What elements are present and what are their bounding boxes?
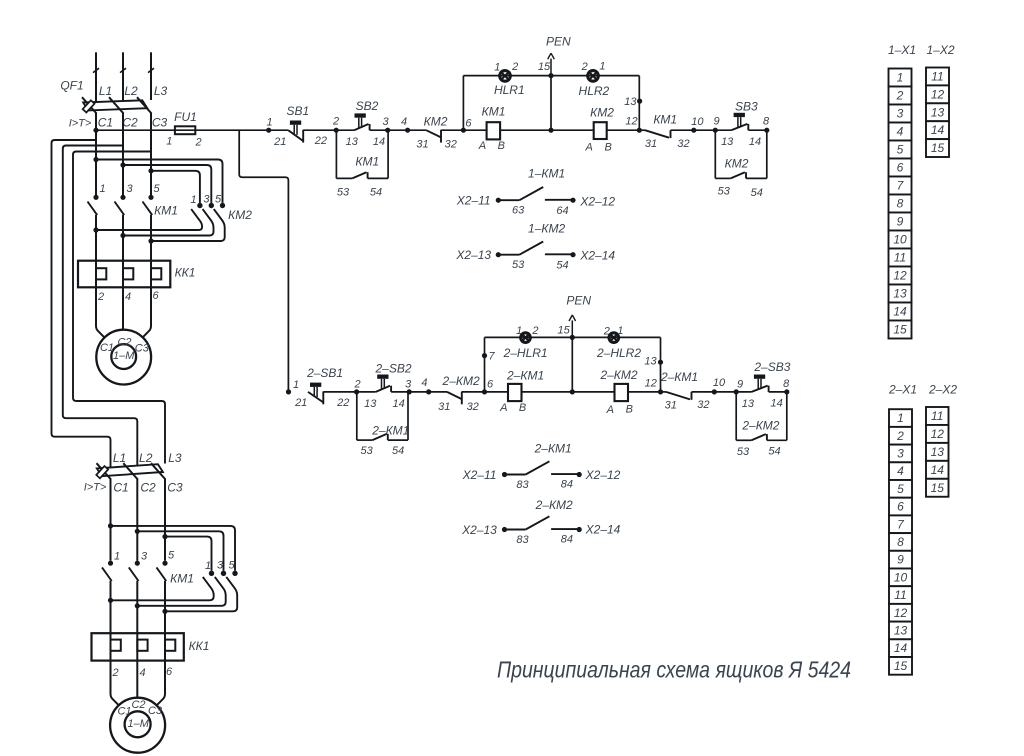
svg-text:Х2–14: Х2–14	[579, 249, 615, 263]
label coil 2KM2 B	[626, 404, 633, 416]
wire SB3 to node 8	[748, 129, 767, 131]
svg-text:14: 14	[373, 136, 385, 148]
label motor C1	[100, 342, 114, 354]
svg-text:84: 84	[561, 478, 573, 490]
svg-text:КМ1: КМ1	[170, 571, 194, 585]
label C3	[152, 116, 168, 130]
svg-text:I>T>: I>T>	[69, 117, 92, 129]
svg-text:1: 1	[293, 379, 299, 391]
label wire 13 (row1)	[624, 96, 637, 108]
contactor 2-KM1 pole 1	[102, 561, 113, 581]
svg-text:31: 31	[438, 401, 450, 413]
svg-text:С1: С1	[100, 342, 114, 354]
label FU1	[174, 110, 197, 124]
circuit breaker QF1 linkage bar	[83, 100, 147, 110]
label pin 63	[512, 204, 525, 216]
node 8 (row2)	[783, 378, 790, 395]
signal lamp 2-HLR1	[503, 333, 548, 360]
label KM2 pin 53	[718, 186, 731, 198]
contactor coil 2-KM2	[599, 368, 637, 401]
svg-text:КМ1: КМ1	[355, 155, 379, 169]
svg-text:2–SB2: 2–SB2	[374, 362, 411, 376]
svg-text:4: 4	[897, 125, 904, 139]
motor 1-M	[96, 330, 151, 385]
svg-text:SB1: SB1	[286, 104, 309, 118]
label 2-KM2 pin 53	[737, 446, 750, 458]
circuit breaker 2 trip unit box	[96, 466, 108, 478]
node 3 (row1)	[382, 116, 390, 133]
wire KK1 to motor lead C3	[143, 287, 151, 337]
svg-text:11: 11	[894, 251, 906, 265]
wire feed tap phase3 to left bus	[73, 152, 165, 464]
svg-text:L3: L3	[168, 451, 182, 465]
svg-text:9: 9	[897, 553, 904, 567]
svg-text:12: 12	[931, 427, 945, 441]
svg-text:2–КМ1: 2–КМ1	[506, 368, 544, 382]
svg-text:12: 12	[931, 87, 945, 101]
svg-text:КМ1: КМ1	[482, 105, 506, 119]
svg-text:32: 32	[445, 139, 457, 151]
svg-text:8: 8	[897, 197, 904, 211]
svg-text:Х2–14: Х2–14	[585, 523, 621, 537]
svg-text:3: 3	[126, 183, 133, 195]
label 2-KM2 pin 54	[768, 446, 780, 458]
wire KK1 to motor lead C1	[96, 287, 104, 337]
label C2 (circuit 2)	[140, 480, 156, 494]
svg-text:13: 13	[931, 445, 945, 459]
svg-text:1: 1	[266, 117, 272, 129]
svg-text:4: 4	[401, 116, 407, 128]
label HLR1 pin 1	[494, 62, 500, 74]
svg-text:С2: С2	[140, 480, 156, 494]
contactor KM1 pole 3	[115, 195, 126, 215]
wire 2KM2 contact to coil	[462, 391, 508, 393]
svg-text:8: 8	[763, 116, 770, 128]
wire 2KM1 contact to 2SB3	[692, 391, 752, 393]
svg-text:2–КМ1: 2–КМ1	[534, 442, 572, 456]
label L1 (circuit 2)	[113, 451, 126, 465]
svg-text:53: 53	[737, 446, 750, 458]
label KK1 pin 4	[125, 291, 131, 303]
node 10 (row2)	[712, 377, 726, 394]
label HLR2 pin 2	[581, 61, 588, 73]
fuse FU1	[175, 126, 195, 134]
svg-text:2–Х1: 2–Х1	[888, 383, 917, 397]
svg-text:1: 1	[599, 61, 605, 73]
contactor KM2 pole 5	[151, 203, 225, 241]
wire phase2 tap to 2KM2 pin3	[137, 531, 223, 570]
label KM2 pin 31	[416, 139, 428, 151]
terminal block 1-X1	[889, 69, 912, 339]
svg-text:5: 5	[168, 550, 175, 562]
wire PEN drop row2	[571, 337, 573, 392]
svg-text:3: 3	[382, 116, 389, 128]
svg-text:2: 2	[97, 291, 104, 303]
svg-text:14: 14	[893, 305, 907, 319]
label coil 2KM1 B	[519, 402, 526, 414]
svg-text:5: 5	[897, 143, 904, 157]
label 2-SB1 pin 21	[294, 397, 307, 409]
svg-text:1: 1	[166, 136, 172, 148]
label 2-SB2 pin 13	[364, 398, 377, 410]
auxiliary contact 2-KM1 31-32	[660, 370, 698, 400]
label 2-X1 header	[888, 383, 917, 397]
svg-text:14: 14	[749, 136, 761, 148]
svg-text:HLR1: HLR1	[494, 83, 525, 97]
svg-text:1: 1	[99, 183, 105, 195]
label wire 13 (row2)	[644, 356, 657, 368]
label SB3 pin 14	[749, 136, 761, 148]
svg-text:5: 5	[228, 560, 235, 572]
svg-text:13: 13	[721, 136, 734, 148]
signal lamp 2-HLR2	[596, 333, 641, 360]
wire SB2 to KM2 contact	[370, 129, 427, 131]
svg-text:1: 1	[897, 71, 904, 85]
label 1-M	[113, 350, 135, 362]
wire lamp line right drop	[637, 76, 642, 131]
label right pole pin 5 (ckt2)	[228, 560, 235, 572]
label 1-M (circuit 2)	[127, 718, 149, 730]
label coil KM2 A	[585, 141, 593, 153]
signal lamp HLR2	[579, 71, 610, 98]
wire KM2 contact to coil KM1	[441, 129, 487, 131]
pushbutton 2-SB2	[374, 362, 411, 392]
label pin 83 (row D)	[516, 534, 529, 546]
svg-text:Х2–13: Х2–13	[455, 248, 491, 262]
svg-text:6: 6	[465, 118, 472, 130]
label X2-12 (row A)	[579, 194, 615, 208]
svg-text:PEN: PEN	[546, 34, 571, 48]
svg-text:15: 15	[893, 323, 907, 337]
svg-text:В: В	[519, 402, 526, 414]
label KK1	[175, 265, 196, 279]
svg-text:32: 32	[677, 138, 689, 150]
svg-text:2: 2	[581, 61, 588, 73]
contactor 2 right pole 1	[111, 571, 215, 601]
wire node3 branch down (row2)	[407, 392, 409, 440]
label 2-KM1 pin 31	[665, 399, 677, 411]
svg-text:2–HLR1: 2–HLR1	[503, 346, 548, 360]
label coil KM1 A	[478, 140, 486, 152]
svg-text:15: 15	[931, 141, 945, 155]
node 10 (row1)	[691, 116, 704, 133]
label motor2 C3	[148, 705, 163, 717]
thermal relay 2 heater 1	[111, 640, 121, 651]
svg-text:11: 11	[931, 70, 943, 84]
label pin 54 (row B)	[556, 260, 568, 272]
svg-text:В: В	[626, 404, 633, 416]
svg-text:КМ1: КМ1	[154, 203, 178, 217]
label X2-14 (row B)	[579, 249, 615, 263]
circuit breaker QF1 trip unit box	[83, 100, 95, 112]
svg-text:63: 63	[512, 204, 525, 216]
svg-text:54: 54	[768, 446, 780, 458]
svg-text:КК1: КК1	[175, 265, 196, 279]
label motor2 C1	[117, 706, 131, 718]
PEN node (row2)	[566, 293, 591, 340]
label 2-SB1 pin 22	[336, 397, 349, 409]
wire KK1 to motor lead C2	[122, 287, 124, 330]
svg-text:22: 22	[336, 397, 349, 409]
auxiliary contact KM1 53-54	[336, 155, 388, 179]
wire node8 branch down (row2)	[786, 392, 788, 440]
svg-text:14: 14	[392, 398, 404, 410]
label wire 7 (row2)	[488, 350, 495, 362]
wire phase C3 below breaker	[150, 113, 152, 195]
label X2-11 (row A)	[456, 194, 491, 208]
svg-text:3: 3	[141, 551, 148, 563]
svg-text:5: 5	[897, 482, 904, 496]
wire phase C2 below breaker	[122, 113, 124, 195]
terminal block 2-X1	[889, 409, 912, 675]
svg-text:5: 5	[215, 194, 222, 206]
wire KK1-2 to motor lead C3	[157, 661, 165, 705]
svg-text:L1: L1	[99, 84, 112, 98]
svg-text:PEN: PEN	[566, 293, 591, 307]
svg-text:9: 9	[897, 215, 904, 229]
wire phase2 below breaker 2	[135, 479, 140, 561]
pushbutton SB2	[354, 99, 378, 130]
circuit breaker QF1 pole arm 3	[137, 97, 152, 113]
node 2 (row2)	[354, 379, 361, 395]
svg-text:15: 15	[931, 481, 945, 495]
contactor KM2 pole 3	[123, 203, 214, 236]
label wire 15 (row1)	[538, 61, 551, 73]
svg-text:1–М: 1–М	[113, 350, 135, 362]
svg-text:54: 54	[751, 187, 763, 199]
svg-text:2–КМ2: 2–КМ2	[535, 498, 573, 512]
label coil KM1 B	[498, 140, 505, 152]
label 2-HLR1 pin 2	[531, 325, 538, 337]
label pin 84 (row C)	[561, 478, 573, 490]
svg-text:1: 1	[897, 411, 904, 425]
label C3 (circuit 2)	[167, 480, 183, 494]
svg-text:2–SB1: 2–SB1	[306, 366, 343, 380]
svg-text:13: 13	[931, 105, 945, 119]
circuit breaker 2 pole arm 1	[97, 463, 112, 479]
label 2-KM1 pin 54	[392, 445, 404, 457]
label 2-KM1 pole pin 1	[114, 551, 120, 563]
svg-text:L3: L3	[154, 84, 168, 98]
svg-text:15: 15	[894, 659, 908, 673]
label 2-HLR2 pin 1	[617, 325, 623, 337]
label KM2 (power contacts)	[228, 208, 252, 222]
contactor 2 right pole 5	[165, 571, 238, 612]
label L2 (circuit 2)	[139, 451, 153, 465]
svg-text:7: 7	[488, 350, 495, 362]
svg-text:10: 10	[691, 116, 704, 128]
auxiliary contact 2-KM1 53-54	[357, 424, 410, 441]
svg-text:1: 1	[494, 62, 500, 74]
svg-text:1–М: 1–М	[127, 718, 149, 730]
wire phase1 to KK1	[93, 215, 98, 287]
pushbutton 2-SB3	[752, 360, 791, 392]
label I>T>	[69, 117, 92, 129]
svg-text:Х2–13: Х2–13	[461, 523, 497, 537]
circuit breaker QF1 pole arm 1	[82, 97, 97, 113]
label KM1 pin 54	[370, 187, 382, 199]
wire L3 incoming phase	[148, 52, 154, 100]
svg-text:2: 2	[111, 667, 118, 679]
wire ckt2 phase2 to KK1	[135, 581, 140, 661]
label KM1 (circuit2 power contacts)	[170, 571, 194, 585]
svg-text:2: 2	[511, 61, 518, 73]
svg-text:6: 6	[897, 161, 904, 175]
svg-text:С3: С3	[148, 705, 163, 717]
label pin 83 (row C)	[516, 479, 529, 491]
wire KK1-2 to motor lead C2	[136, 661, 138, 698]
svg-text:8: 8	[897, 535, 904, 549]
svg-text:2: 2	[332, 116, 339, 128]
svg-text:12: 12	[894, 606, 908, 620]
svg-text:1: 1	[617, 325, 623, 337]
wire phase2 to KK1	[120, 215, 125, 287]
svg-text:С2: С2	[131, 699, 145, 711]
svg-text:11: 11	[931, 409, 943, 423]
node 4 (row2)	[421, 377, 431, 395]
circuit breaker 2 linkage bar	[97, 464, 163, 476]
svg-text:5: 5	[153, 183, 160, 195]
thermal relay KK1 heater 1	[96, 268, 106, 279]
wire fuse to SB1	[195, 129, 288, 131]
wire KM1 contact to SB3	[671, 129, 732, 131]
label QF1	[60, 78, 83, 92]
label 2-KM2 pin 32	[467, 401, 479, 413]
svg-text:А: А	[606, 404, 614, 416]
svg-text:1–КМ2: 1–КМ2	[528, 221, 565, 235]
contactor coil KM1	[482, 105, 506, 140]
label X2-13 (row B)	[455, 248, 491, 262]
node 8 (row1)	[763, 116, 770, 133]
circuit breaker 2 pole arm 3	[151, 463, 166, 479]
node 4 (row1)	[401, 116, 410, 133]
label fuse pin 1	[166, 136, 172, 148]
label coil 2KM1 A	[499, 402, 507, 414]
svg-text:8: 8	[783, 378, 790, 390]
wire phase1 tap to 2KM2 pin5	[111, 526, 236, 571]
label KK1-2 pin 4	[139, 667, 145, 679]
label KM1 pin 53	[337, 187, 350, 199]
label pin 84 (row D)	[561, 533, 573, 545]
node 2 (row1)	[332, 116, 339, 133]
svg-text:L2: L2	[139, 451, 153, 465]
wire feed tap phase1 to left bus	[52, 140, 111, 467]
svg-text:2: 2	[603, 325, 610, 337]
svg-text:53: 53	[512, 259, 525, 271]
wire node2 branch down	[335, 130, 337, 178]
svg-text:1–КМ1: 1–КМ1	[528, 166, 565, 180]
svg-text:4: 4	[421, 377, 427, 389]
wire lamp branch riser (row2)	[482, 337, 487, 392]
contactor KM1 pole 1	[88, 195, 99, 215]
wire phase3 tap to KM2 pin1	[148, 168, 200, 203]
svg-text:3: 3	[217, 560, 224, 572]
svg-text:2–КМ2: 2–КМ2	[442, 374, 480, 388]
svg-text:3: 3	[203, 193, 210, 205]
contactor KM1 pole 5	[143, 195, 154, 215]
thermal relay KK1 heater 3	[151, 268, 161, 279]
svg-text:2–КМ2: 2–КМ2	[599, 368, 637, 382]
svg-text:2: 2	[531, 325, 538, 337]
label L1	[99, 84, 112, 98]
wire L2 incoming phase	[120, 52, 126, 101]
label C2	[122, 116, 138, 130]
label KM2 pin 32	[445, 139, 457, 151]
node 3 (row2)	[405, 378, 412, 394]
node 12 (row2)	[645, 377, 663, 394]
label 2-KM1 pin 32	[697, 399, 709, 411]
thermal relay KK1 box	[78, 261, 170, 288]
svg-text:9: 9	[737, 378, 743, 390]
wire 2SB2 to 2KM2 contact	[391, 391, 447, 393]
wire coil KM2 to node 12	[607, 129, 640, 131]
svg-text:4: 4	[125, 291, 131, 303]
wire phase3 tap to 2KM2 pin1	[165, 537, 212, 571]
svg-text:1: 1	[516, 325, 522, 337]
wire phase2 tap to KM2 pin3	[120, 162, 211, 203]
svg-text:Принципиальная схема ящиков Я: Принципиальная схема ящиков Я 5424	[497, 657, 851, 683]
label coil 2KM2 A	[606, 404, 614, 416]
thermal relay KK1 (circuit 2) box	[92, 633, 184, 660]
label KM1 pole pin 1	[99, 183, 105, 195]
svg-text:1: 1	[205, 560, 211, 572]
label 2-KM2 pin 31	[438, 401, 450, 413]
svg-text:54: 54	[370, 187, 382, 199]
thermal relay 2 heater 2	[137, 640, 147, 651]
svg-text:1–Х1: 1–Х1	[888, 43, 916, 57]
label C1	[98, 116, 113, 130]
label KM2 pin 54	[751, 187, 763, 199]
label KM2 pole pin 5	[215, 194, 222, 206]
svg-text:2: 2	[195, 136, 202, 148]
svg-text:53: 53	[718, 186, 731, 198]
auxiliary contact KM2 31-32	[424, 115, 448, 143]
svg-text:4: 4	[897, 464, 904, 478]
svg-text:32: 32	[697, 399, 709, 411]
label L3	[154, 84, 168, 98]
svg-text:53: 53	[337, 187, 350, 199]
label SB1 pin 21	[273, 136, 286, 148]
svg-text:84: 84	[561, 533, 573, 545]
svg-text:21: 21	[273, 136, 286, 148]
label KK1 (circuit 2)	[189, 639, 210, 653]
svg-text:22: 22	[314, 135, 327, 147]
wire L1 incoming phase	[93, 52, 99, 102]
wire phase1 tap to KM2 pin5	[93, 157, 222, 203]
svg-text:10: 10	[713, 377, 726, 389]
wire KK1-2 to motor lead C1	[111, 661, 119, 705]
wire node2 branch down (row2)	[356, 392, 358, 440]
label wire 15 (row2)	[557, 325, 570, 337]
svg-text:14: 14	[894, 641, 908, 655]
svg-text:13: 13	[364, 398, 377, 410]
label pin 53 (row B)	[512, 259, 525, 271]
svg-text:КМ2: КМ2	[228, 208, 252, 222]
label fuse pin 2	[195, 136, 202, 148]
label I>T> (circuit 2)	[84, 482, 107, 494]
wire 2SB3 to node 8	[769, 391, 787, 393]
auxiliary contact 2-KM1 83-84	[502, 442, 582, 478]
node 12 (row1)	[625, 116, 642, 133]
svg-text:Х2–11: Х2–11	[456, 194, 491, 208]
svg-text:2: 2	[896, 429, 904, 443]
label HLR2 pin 1	[599, 61, 605, 73]
svg-text:13: 13	[624, 96, 637, 108]
label KM1 pole pin 5	[153, 183, 160, 195]
node 6 (row2)	[482, 378, 494, 394]
signal lamp HLR1	[494, 71, 525, 97]
contactor KM2 pole 1	[96, 203, 203, 230]
